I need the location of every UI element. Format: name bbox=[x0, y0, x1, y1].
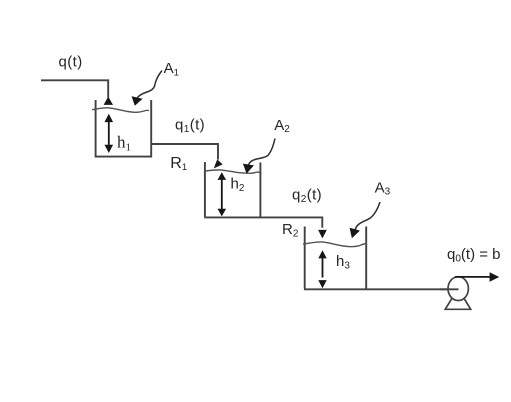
arrowhead into tank3 bbox=[318, 230, 327, 239]
water surface tank3 bbox=[303, 242, 367, 247]
pump P1 body circle bbox=[448, 277, 468, 301]
level arrow h2 (double-headed) bbox=[218, 172, 227, 216]
svg-text:q2(t): q2(t) bbox=[292, 187, 322, 206]
wire inlet pipe q bbox=[41, 80, 108, 97]
curved arrow A1 to tank1 surface bbox=[132, 71, 162, 106]
svg-text:q0(t) = b: q0(t) = b bbox=[447, 246, 501, 265]
tank T2 walls bbox=[205, 162, 261, 217]
tank T3 bottom and outlet pipe to pump bbox=[304, 288, 448, 290]
svg-text:q(t): q(t) bbox=[59, 54, 83, 71]
svg-text:R2: R2 bbox=[282, 221, 299, 240]
arrowhead inlet into tank1 bbox=[104, 97, 113, 105]
wire outlet pipe tank1 to tank2 bbox=[151, 144, 218, 160]
pump outlet arrow q0 bbox=[455, 272, 499, 282]
svg-text:R1: R1 bbox=[170, 155, 187, 173]
wire pipe into pump center bbox=[440, 288, 459, 290]
curved arrow A3 to tank3 surface bbox=[350, 202, 380, 238]
svg-text:h3: h3 bbox=[336, 253, 350, 272]
svg-text:A1: A1 bbox=[164, 60, 179, 79]
water surface tank1 bbox=[92, 108, 149, 113]
level arrow h3 (double-headed) bbox=[318, 250, 326, 288]
arrowhead into tank2 bbox=[214, 159, 223, 168]
svg-text:h2: h2 bbox=[231, 176, 245, 195]
tank T2 bottom and outlet pipe to tank3 bbox=[204, 217, 322, 227]
tank T1 walls bbox=[96, 100, 152, 157]
svg-text:A3: A3 bbox=[375, 180, 391, 198]
svg-text:q1(t): q1(t) bbox=[175, 116, 205, 135]
level arrow h1 (double-headed) bbox=[105, 114, 114, 153]
curved arrow A2 to tank2 surface bbox=[243, 139, 275, 174]
water surface tank2 bbox=[204, 170, 262, 174]
svg-text:A2: A2 bbox=[274, 117, 290, 135]
svg-text:h1: h1 bbox=[117, 133, 131, 154]
tank T3 walls bbox=[305, 227, 367, 289]
pump P1 base triangle bbox=[445, 289, 471, 310]
